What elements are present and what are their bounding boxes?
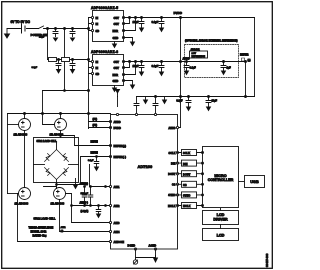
- chip left pins: [109, 120, 111, 242]
- gnd arrow near bridge: [75, 179, 77, 185]
- capacitor C6: [161, 61, 163, 63]
- feed taps from input: [48, 29, 65, 91]
- op-amp A4: [51, 188, 66, 206]
- svg-text:10µF: 10µF: [212, 100, 218, 103]
- chip right AVDD pin: [176, 126, 178, 128]
- svg-text:(0.1µF): (0.1µF): [81, 210, 89, 213]
- MICRO CONTROLLER: [203, 147, 239, 208]
- svg-text:DOUT: DOUT: [168, 172, 176, 176]
- svg-text:1µF: 1µF: [227, 67, 232, 70]
- diff filter caps: [84, 186, 86, 188]
- svg-text:LCD: LCD: [217, 234, 225, 238]
- bridge resistors: [45, 150, 69, 180]
- svg-text:1/2 AD8606: 1/2 AD8606: [15, 202, 29, 206]
- svg-text:MODEL 1042: MODEL 1042: [31, 230, 47, 234]
- chip bottom pins: [134, 248, 136, 250]
- svg-text:OUT: OUT: [114, 60, 120, 64]
- svg-text:OUT: OUT: [114, 16, 120, 20]
- sense wiring: [18, 194, 111, 242]
- svg-text:10µF: 10µF: [39, 36, 45, 39]
- svg-text:ADP3303ARZ-5: ADP3303ARZ-5: [91, 6, 118, 10]
- left feed down: [43, 90, 89, 92]
- svg-text:OUT: OUT: [114, 66, 120, 70]
- battery B1: [7, 28, 39, 30]
- svg-text:ERR: ERR: [113, 29, 119, 33]
- capacitor C5: [141, 61, 143, 63]
- svg-text:AVDD: AVDD: [168, 126, 175, 130]
- regulator U2 ADP3303-5: [91, 6, 125, 41]
- svg-text:SYNC: SYNC: [183, 194, 190, 198]
- svg-text:(OPTIONAL ADR441 EXTERNAL REFE: (OPTIONAL ADR441 EXTERNAL REFERENCE): [185, 40, 238, 43]
- chip top pins with caps: [134, 97, 139, 115]
- AVDD vertical: [178, 18, 181, 128]
- svg-text:(−): (−): [61, 231, 64, 233]
- svg-text:REFIN: REFIN: [91, 152, 98, 155]
- svg-text:ADP3303ARZ-3: ADP3303ARZ-3: [91, 50, 118, 54]
- svg-text:350Ω LOAD CELL: 350Ω LOAD CELL: [34, 217, 56, 221]
- sensor bus: [8, 113, 111, 115]
- svg-text:DGND: DGND: [128, 244, 136, 248]
- svg-text:AIN2: AIN2: [114, 204, 120, 208]
- ferrite bead FB2: [62, 58, 70, 62]
- svg-text:1000pF: 1000pF: [81, 193, 89, 195]
- svg-text:AIN1: AIN1: [114, 185, 120, 189]
- svg-text:IN: IN: [96, 60, 99, 64]
- svg-text:LCD: LCD: [217, 213, 225, 217]
- svg-text:SCLK: SCLK: [183, 151, 190, 155]
- svg-text:09437-009: 09437-009: [265, 253, 269, 267]
- svg-text:SCLK: SCLK: [168, 151, 175, 155]
- svg-text:DIN: DIN: [171, 161, 176, 165]
- reg2 bottom gnd: [114, 86, 116, 89]
- svg-text:AD7190: AD7190: [138, 164, 153, 169]
- svg-text:REFERENCE: REFERENCE: [192, 56, 206, 58]
- svg-text:AGND: AGND: [149, 244, 157, 248]
- wire REFIN1(-) sense tap: [57, 157, 111, 185]
- capacitor C3 10uF: [141, 17, 143, 19]
- wire micro to USB: [239, 181, 245, 183]
- regulator U3 ADP3303-3: [91, 50, 125, 85]
- svg-text:REFIN2: REFIN2: [240, 54, 249, 57]
- op-amp A3: [8, 188, 31, 206]
- svg-text:0.1µF: 0.1µF: [152, 20, 159, 24]
- svg-text:DIN: DIN: [183, 162, 188, 166]
- svg-text:SYNC: SYNC: [168, 193, 175, 197]
- svg-text:USB: USB: [250, 179, 259, 184]
- ferrite bead FB1: [49, 58, 57, 62]
- svg-text:1/2 AD8606: 1/2 AD8606: [14, 132, 28, 136]
- capacitor C1: [55, 28, 57, 30]
- AVDD rail: [124, 61, 246, 63]
- svg-text:ERR: ERR: [113, 73, 119, 77]
- svg-text:AVDD: AVDD: [183, 57, 190, 61]
- load cell box: [34, 138, 79, 183]
- ADC chip AD7190: [111, 115, 178, 250]
- svg-text:IN: IN: [96, 16, 99, 20]
- svg-text:SD: SD: [96, 72, 100, 76]
- svg-text:1/2 AD8606: 1/2 AD8606: [51, 202, 65, 206]
- reg1 GND wire: [124, 38, 133, 42]
- DVDD rail: [124, 17, 255, 19]
- REFIN- bypass cap: [96, 156, 98, 158]
- svg-text:0.1µF: 0.1µF: [32, 67, 38, 69]
- svg-text:AIN3: AIN3: [114, 221, 120, 225]
- svg-text:AINCOM: AINCOM: [114, 240, 125, 244]
- svg-text:SD: SD: [96, 29, 100, 33]
- caps on DVDD bottom run: [188, 96, 190, 98]
- microcontroller left pins: [202, 152, 204, 207]
- LCD DRIVER box: [203, 211, 239, 225]
- reg2 GND wire: [124, 81, 133, 85]
- svg-text:REFIN1(+): REFIN1(+): [114, 144, 127, 148]
- svg-text:DVDD: DVDD: [114, 126, 121, 130]
- svg-text:6V TO 9V DC: 6V TO 9V DC: [11, 20, 31, 24]
- svg-text:RATED 6kg: RATED 6kg: [33, 234, 47, 238]
- svg-text:0.1µF: 0.1µF: [190, 67, 197, 70]
- left filter rail: [48, 59, 89, 61]
- ref caps: [186, 61, 188, 63]
- wire micro to LCD driver: [220, 209, 222, 211]
- LCD box: [203, 229, 239, 241]
- ground (power input): [5, 29, 10, 39]
- wire REFIN1(+) sense tap: [61, 136, 111, 146]
- svg-text:(3V): (3V): [93, 124, 98, 127]
- svg-text:10µF: 10µF: [133, 20, 139, 24]
- svg-text:(5V): (5V): [93, 118, 98, 121]
- svg-text:DOUT: DOUT: [183, 172, 191, 176]
- svg-text:MCLK: MCLK: [168, 204, 176, 208]
- svg-text:GND: GND: [113, 36, 119, 40]
- svg-text:AIN1(−): AIN1(−): [80, 202, 89, 205]
- wires chip to microcontroller with SPI net label boxes: [178, 150, 203, 209]
- DVDD rail down right: [254, 18, 256, 97]
- svg-text:REFIN: REFIN: [91, 141, 98, 144]
- chip right pins: [176, 151, 178, 206]
- svg-text:AVDD: AVDD: [114, 120, 121, 124]
- svg-text:(+): (+): [248, 59, 251, 62]
- USB connector box: [245, 176, 265, 188]
- wire LCD driver to LCD: [220, 225, 222, 229]
- capacitor C8: [72, 59, 74, 61]
- svg-text:TEDEA-HUNTLEIGH: TEDEA-HUNTLEIGH: [29, 226, 54, 230]
- svg-text:0.1µF: 0.1µF: [176, 100, 183, 103]
- svg-text:CONTROLLER: CONTROLLER: [208, 178, 234, 182]
- wire input to caps: [63, 28, 89, 30]
- input rail vertical: [88, 18, 90, 129]
- svg-text:CS: CS: [183, 183, 187, 187]
- svg-text:CS: CS: [172, 183, 176, 187]
- svg-text:10µF: 10µF: [133, 64, 139, 68]
- node filter taps: [64, 59, 66, 61]
- svg-text:REFIN1(−): REFIN1(−): [114, 155, 127, 159]
- op-amp A2: [43, 114, 67, 137]
- switch SW1: [39, 26, 63, 29]
- svg-text:GND: GND: [113, 79, 119, 83]
- bridge wires: [60, 131, 62, 138]
- reg1 bottom ground: [114, 42, 116, 45]
- svg-text:AIN2: AIN2: [61, 226, 67, 229]
- svg-text:DVDD: DVDD: [174, 11, 183, 15]
- shunt cap AIN-: [98, 205, 100, 207]
- svg-text:IN: IN: [96, 22, 99, 26]
- wire AVDD/DVDD pin feeds: [89, 122, 111, 128]
- svg-text:AIN4: AIN4: [114, 230, 120, 234]
- capacitor C7: [58, 59, 60, 61]
- svg-text:2.5V: 2.5V: [192, 53, 197, 55]
- svg-text:0.1µF: 0.1µF: [88, 160, 94, 162]
- op-amp A1: [8, 114, 31, 137]
- capacitor C4 0.1uF: [161, 17, 163, 19]
- svg-text:350Ω LOAD CELL: 350Ω LOAD CELL: [37, 140, 58, 143]
- svg-text:MCLK: MCLK: [183, 204, 191, 208]
- svg-text:OUT: OUT: [114, 22, 120, 26]
- svg-text:0.1µF: 0.1µF: [152, 64, 159, 68]
- capacitor C2: [72, 28, 74, 30]
- svg-text:IN: IN: [96, 66, 99, 70]
- svg-text:DRIVER: DRIVER: [213, 218, 228, 222]
